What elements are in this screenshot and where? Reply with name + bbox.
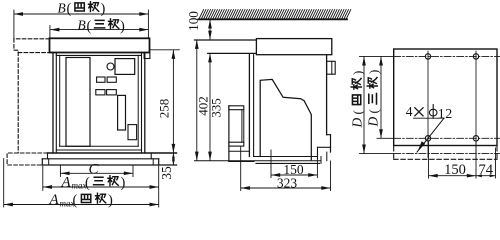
svg-text:): ) bbox=[108, 193, 113, 209]
svg-text:B: B bbox=[78, 17, 86, 32]
counter window rectangle bbox=[115, 59, 135, 75]
extension line B right (shared) bbox=[147, 10, 149, 38]
bracket lower ledge line bbox=[229, 150, 250, 152]
svg-text:): ) bbox=[366, 70, 381, 74]
base bottom line + ext to 35 dim bbox=[42, 164, 176, 166]
svg-text:12: 12 bbox=[438, 107, 453, 122]
dimension line 402 bbox=[196, 40, 198, 160]
dimension line B(four-pole) bbox=[14, 13, 148, 15]
body rear (left) inner edge bbox=[253, 55, 255, 157]
terminal web line 2 bbox=[243, 110, 245, 143]
mounting hole top-left bbox=[425, 54, 430, 59]
svg-text:D: D bbox=[366, 117, 381, 128]
svg-text:323: 323 bbox=[277, 175, 298, 190]
left foot inner line bbox=[48, 159, 50, 165]
right step edge bbox=[150, 153, 152, 159]
svg-text:100: 100 bbox=[186, 11, 201, 31]
extension line Amax(three-pole) left bbox=[42, 166, 44, 190]
cap right lower tab bbox=[144, 53, 150, 59]
front accessory tab inner line bbox=[331, 61, 333, 74]
extension line 150/74 shared bbox=[475, 142, 477, 179]
right side small rectangle bbox=[128, 125, 137, 140]
front face top edge bbox=[56, 54, 141, 56]
extension line 258 top bbox=[150, 49, 179, 51]
extension/centre line top holes bbox=[360, 55, 394, 57]
svg-text:35: 35 bbox=[159, 166, 174, 180]
dimension line 74 bbox=[477, 175, 495, 177]
rail top line bbox=[254, 156, 318, 158]
side view top band (left low part) bbox=[195, 40, 257, 53]
front lower edge bbox=[330, 135, 332, 152]
button row1 left bbox=[97, 77, 105, 82]
body left inner edge bbox=[55, 53, 57, 154]
extension line B(three-pole) left bbox=[49, 26, 51, 39]
label D(three-pole) rotated bbox=[366, 70, 381, 128]
body left outer edge bbox=[52, 53, 54, 154]
extension line 150 left (middle view) bbox=[270, 150, 272, 178]
terminal web line 1 bbox=[241, 110, 243, 143]
top cap (arc chamber cover) bbox=[50, 38, 150, 52]
front accessory tab bbox=[327, 61, 336, 74]
dimension line 150 (middle view) bbox=[272, 174, 317, 176]
svg-text:4: 4 bbox=[406, 104, 413, 119]
mounting hole bottom-right bbox=[473, 136, 478, 141]
terminal bracket outer edge bbox=[228, 106, 230, 162]
mounting hole bottom-left bbox=[425, 136, 430, 141]
dashed outline: four-pole plate extension bbox=[394, 147, 497, 160]
dimension line C bbox=[61, 172, 132, 174]
extension line 150 left (right view) bbox=[428, 142, 430, 179]
extension line Amax right (shared) bbox=[158, 166, 160, 207]
vertical centre line right hole column bbox=[475, 51, 477, 158]
centre line through top holes bbox=[394, 55, 500, 57]
front cover staircase profile bbox=[260, 79, 311, 159]
svg-text:(: ( bbox=[67, 1, 72, 17]
dimension line 258 bbox=[172, 50, 174, 152]
extension line B(four-pole) left bbox=[13, 10, 15, 39]
leader line to bottom-left hole bbox=[417, 118, 444, 152]
svg-text:74: 74 bbox=[479, 162, 494, 178]
button row2 right bbox=[107, 90, 117, 95]
indicator circle (button) bbox=[107, 63, 114, 70]
dimension line D(three-pole) bbox=[380, 57, 382, 138]
mounting hole top-right bbox=[473, 54, 478, 59]
rail bottom line bbox=[256, 162, 320, 164]
extension line C right bbox=[132, 166, 134, 177]
door / nameplate tall panel bbox=[66, 58, 90, 147]
dimension line 335 bbox=[209, 54, 211, 160]
body right outer edge bbox=[144, 53, 146, 154]
right foot outer edge bbox=[158, 159, 160, 165]
label D(four-pole) rotated bbox=[350, 71, 365, 129]
extension line 150 right (middle view) bbox=[316, 152, 318, 178]
front foot pad left edge bbox=[317, 147, 319, 158]
front face lower inner line bbox=[56, 149, 141, 151]
extension line four-pole hole row bbox=[360, 153, 394, 155]
dashed outline: four-pole wider body bbox=[7, 39, 49, 165]
svg-text:258: 258 bbox=[156, 99, 171, 119]
leader shelf under label bbox=[414, 117, 445, 119]
base ledge upper line + ext to 258/35 dims bbox=[48, 152, 177, 154]
svg-text:A: A bbox=[49, 192, 60, 208]
body rear (left) outer edge bbox=[248, 55, 250, 157]
dimension line Amax(three-pole) bbox=[43, 186, 158, 188]
ceiling bottom line bbox=[198, 18, 347, 20]
extension line 74 right bbox=[495, 148, 497, 178]
extension line 323 right bbox=[330, 161, 332, 191]
base ledge lower line bbox=[42, 158, 158, 160]
handle vertical rectangle bbox=[118, 95, 126, 130]
front foot pad top bbox=[318, 146, 331, 148]
centre line four-pole hole row bbox=[394, 153, 500, 155]
extension line bottom holes (three-pole) bbox=[377, 137, 394, 139]
extension line C left bbox=[59, 166, 61, 177]
svg-text:(: ( bbox=[73, 193, 78, 209]
ceiling hatched band bbox=[199, 10, 351, 19]
times sign bbox=[415, 108, 423, 116]
dimension line 150 (right view) bbox=[429, 175, 475, 177]
svg-text:A: A bbox=[61, 175, 72, 191]
right foot inner line bbox=[152, 159, 154, 165]
dimension line D(four-pole) bbox=[363, 57, 365, 153]
rail right end cap bbox=[320, 157, 322, 164]
front lower step bbox=[327, 134, 331, 136]
svg-text:(: ( bbox=[350, 110, 365, 114]
rail mid line + extension to 402/335 dims bbox=[195, 160, 322, 162]
svg-text:(: ( bbox=[366, 109, 381, 113]
button row1 right bbox=[107, 77, 116, 82]
left step edge bbox=[47, 153, 49, 159]
extension line 323 left bbox=[240, 147, 242, 191]
extension line Amax(four-pole) left bbox=[3, 159, 5, 207]
svg-text:335: 335 bbox=[209, 98, 224, 118]
svg-text:(: ( bbox=[85, 175, 90, 191]
tab bottom line bbox=[229, 160, 254, 162]
svg-text:150: 150 bbox=[444, 162, 466, 178]
dimension line 100 bbox=[209, 20, 211, 39]
svg-text:): ) bbox=[101, 1, 106, 17]
dimension line B(three-pole) bbox=[51, 29, 148, 31]
body right inner edge bbox=[141, 53, 143, 154]
front face right inset line bbox=[137, 55, 139, 146]
button row2 left bbox=[96, 90, 105, 95]
svg-text:): ) bbox=[120, 18, 125, 34]
centre line through bottom holes bbox=[394, 137, 500, 139]
side view top band (right taller part) bbox=[256, 39, 331, 55]
front face left inset line bbox=[59, 55, 61, 146]
terminal bottom flange bbox=[229, 142, 244, 146]
svg-text:B: B bbox=[58, 0, 66, 15]
front face bottom edge bbox=[60, 145, 139, 147]
front foot inner step edge bbox=[326, 152, 328, 161]
terminal top flange bbox=[229, 106, 244, 110]
svg-text:): ) bbox=[121, 175, 126, 191]
dimension line 323 bbox=[241, 187, 330, 189]
svg-text:): ) bbox=[350, 71, 365, 75]
svg-text:(: ( bbox=[87, 18, 92, 34]
dimension line 35 bbox=[172, 154, 174, 165]
vertical centre line left hole column bbox=[427, 51, 429, 158]
body front (right) edge below band bbox=[326, 55, 328, 135]
dimension line Amax(four-pole) bbox=[4, 204, 158, 206]
left foot outer edge bbox=[41, 159, 43, 165]
svg-text:D: D bbox=[350, 118, 365, 129]
mounting plate outline (three-pole) bbox=[394, 49, 497, 146]
svg-text:C: C bbox=[89, 161, 100, 177]
